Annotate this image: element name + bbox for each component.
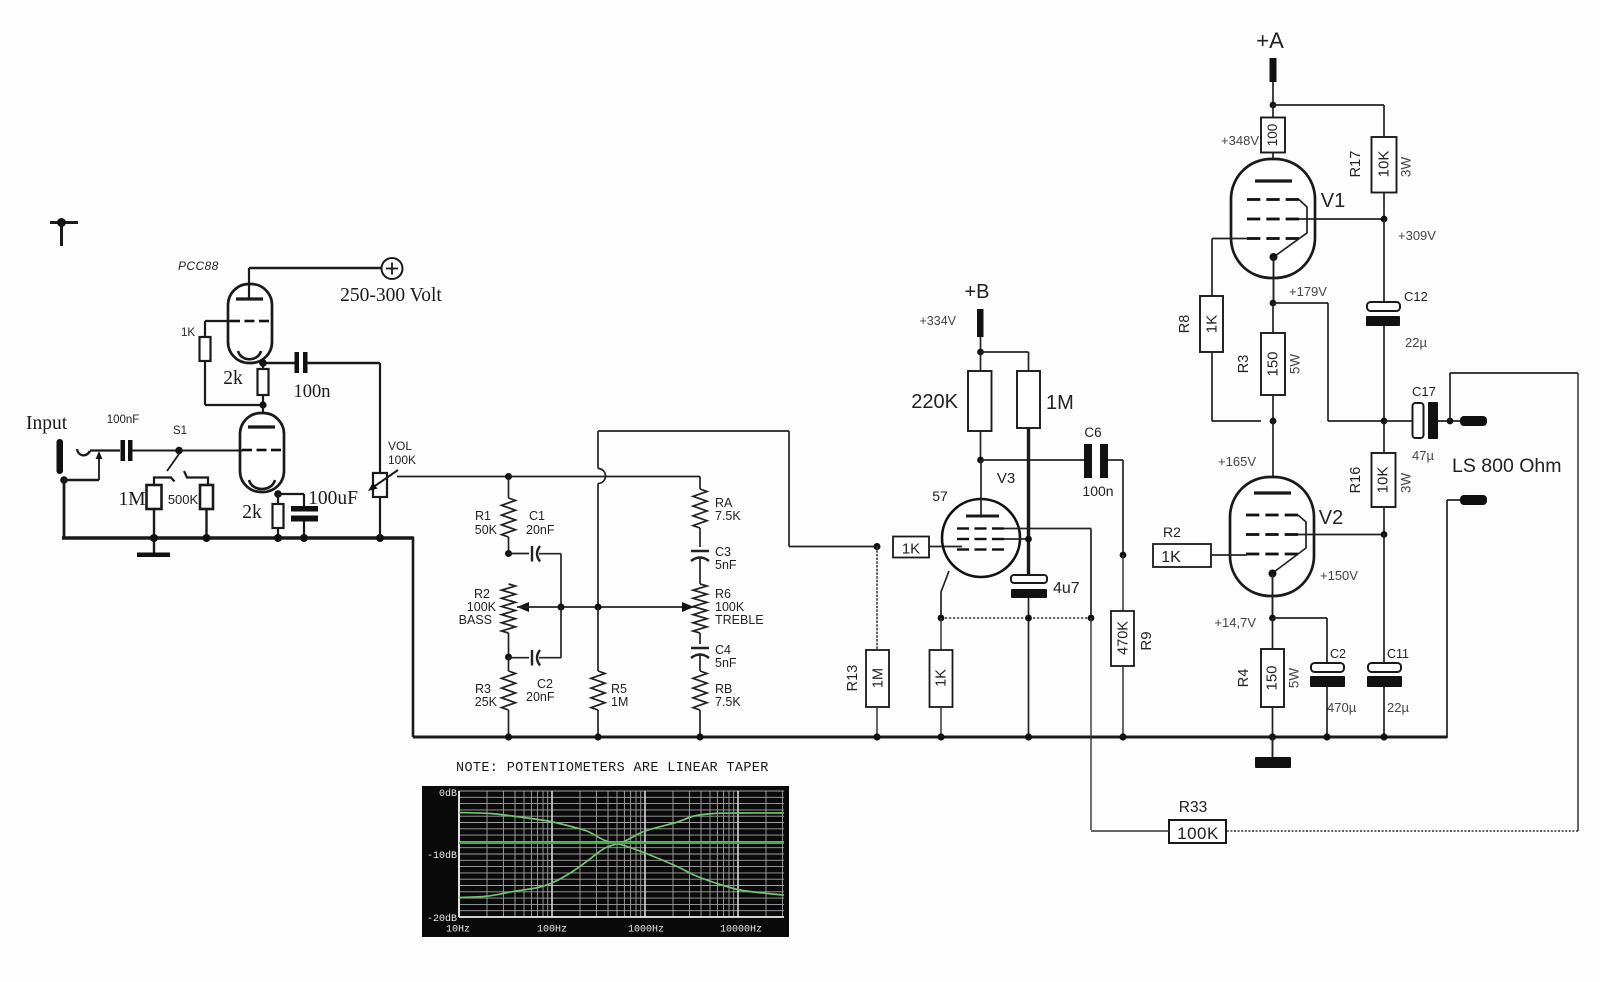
wire V2 out row to R16 node (1298, 534, 1384, 536)
svg-text:500K: 500K (168, 492, 199, 507)
svg-text:C11: C11 (1387, 647, 1409, 661)
wire +A to R17 (1273, 105, 1384, 137)
wire +A down (1272, 82, 1274, 105)
svg-text:V1: V1 (1321, 190, 1345, 212)
node RB ground (696, 733, 703, 740)
svg-text:1K: 1K (1161, 549, 1181, 566)
wiper wire bass/treble (517, 602, 694, 612)
svg-text:100uF: 100uF (308, 488, 358, 509)
node junction 2k/1K/plate-lower (259, 401, 266, 408)
svg-text:1M: 1M (1046, 392, 1074, 414)
resistor 1K V3 grid stopper (893, 537, 962, 558)
svg-text:2k: 2k (223, 368, 243, 389)
svg-text:5W: 5W (1288, 354, 1303, 375)
wire output to feedback R33 (1226, 373, 1578, 831)
triode upper (PCC88 a) (228, 284, 272, 363)
svg-text:25K: 25K (475, 695, 498, 709)
svg-text:3W: 3W (1399, 473, 1414, 494)
svg-text:100K: 100K (388, 453, 416, 467)
node R13 ground (873, 733, 880, 740)
capacitor 100nF input (121, 440, 177, 461)
node R4 ground (1269, 733, 1276, 740)
svg-text:100: 100 (1265, 124, 1280, 147)
frequency response chart (422, 786, 789, 937)
svg-text:1K: 1K (181, 327, 195, 339)
svg-text:4u7: 4u7 (1053, 580, 1080, 597)
svg-text:100n: 100n (294, 382, 331, 402)
node R17/C12/V1 (1381, 216, 1388, 223)
resistor R13 1M (845, 547, 889, 738)
node cathode lower triode (274, 490, 282, 498)
svg-text:R17: R17 (1348, 151, 1364, 178)
node 500K ground (203, 534, 211, 542)
wire tone output up and over to V3 grid (598, 431, 877, 547)
capacitor C2 20nF (509, 607, 562, 704)
svg-text:R3: R3 (1236, 355, 1252, 374)
resistor 2k (upper cathode) (223, 363, 268, 405)
svg-text:+309V: +309V (1398, 228, 1436, 243)
svg-text:Input: Input (26, 413, 68, 434)
resistor RA 7.5K (693, 477, 741, 548)
node V3 grid / R13 (874, 543, 881, 550)
svg-text:22µ: 22µ (1405, 335, 1427, 350)
svg-text:R4: R4 (1236, 669, 1252, 688)
svg-text:100K: 100K (1177, 824, 1219, 843)
svg-text:250-300 Volt: 250-300 Volt (340, 285, 442, 306)
svg-text:C17: C17 (1412, 384, 1436, 399)
svg-text:2k: 2k (242, 502, 262, 523)
svg-text:100K: 100K (715, 600, 745, 614)
capacitor C11 22u (1367, 647, 1409, 737)
node cathode left (938, 615, 945, 622)
capacitor 100uF cathode bypass (278, 488, 358, 538)
wire grid lower triode from S1 (179, 450, 242, 452)
node output (1447, 418, 1454, 425)
cathode bus V3 dotted (941, 617, 1091, 619)
tube V3 pentode 57 (932, 460, 1020, 618)
svg-text:150: 150 (1263, 665, 1280, 690)
wire VOL-ground to main rail (412, 537, 415, 738)
svg-text:10K: 10K (1375, 151, 1392, 178)
ground rail input section (62, 536, 413, 539)
resistor 1K (grid stopper upper) (181, 321, 230, 361)
resistor R2 1K V2 grid (1153, 524, 1247, 567)
wire jack sleeve to ground rail (63, 480, 66, 539)
svg-text:7.5K: 7.5K (715, 509, 741, 523)
node screen junction (1025, 536, 1032, 543)
wire cathode to C2 (1273, 618, 1328, 663)
svg-text:100n: 100n (1082, 483, 1113, 499)
svg-text:+179V: +179V (1289, 284, 1327, 299)
svg-text:+14,7V: +14,7V (1214, 615, 1256, 630)
svg-text:V2: V2 (1319, 507, 1343, 529)
wire feedback from V3 cathode down (1090, 618, 1092, 830)
svg-text:VOL: VOL (388, 439, 412, 453)
node 1K ground (937, 733, 944, 740)
resistor R3 25K (475, 657, 516, 737)
resistor R1 50K (475, 477, 516, 554)
tube V2 (1230, 421, 1343, 618)
svg-text:RB: RB (715, 682, 732, 696)
svg-text:NOTE: POTENTIOMETERS ARE LINEA: NOTE: POTENTIOMETERS ARE LINEAR TAPER (456, 761, 769, 776)
svg-text:150: 150 (1264, 351, 1281, 376)
potentiometer VOL 100K (368, 363, 398, 538)
resistor 1M (input) (118, 485, 161, 538)
wire +B to node (980, 337, 982, 352)
wire node down to C12 (1383, 219, 1385, 302)
svg-text:22µ: 22µ (1387, 700, 1409, 715)
svg-text:-20dB: -20dB (427, 913, 457, 925)
svg-text:+150V: +150V (1320, 568, 1358, 583)
capacitor C4 5nF (691, 643, 737, 671)
svg-text:+165V: +165V (1218, 454, 1256, 469)
wire VOL wiper to tone network (397, 476, 508, 478)
wire plate upper triode to +supply (249, 268, 381, 299)
node 4u7 ground (1025, 733, 1032, 740)
svg-text:C6: C6 (1084, 425, 1101, 440)
grid dashes lower triode (242, 449, 252, 452)
node cathode upper triode (259, 359, 267, 367)
curve falling response (459, 813, 784, 896)
resistor 1M screen feed (981, 352, 1074, 428)
ground symbol output section (1255, 737, 1291, 768)
svg-text:R5: R5 (611, 682, 627, 696)
node C2 ground (1323, 733, 1330, 740)
svg-text:1M: 1M (611, 695, 628, 709)
resistor R17 10K 3W (1348, 137, 1414, 219)
resistor R9 470K (1111, 555, 1155, 737)
node 1M ground (150, 534, 158, 542)
resistor 1K V3 cathode (930, 618, 953, 737)
svg-text:1M: 1M (118, 489, 145, 510)
svg-text:R13: R13 (845, 665, 861, 692)
svg-text:20nF: 20nF (526, 690, 555, 704)
node R1/R2/C1 (505, 550, 512, 557)
svg-text:R2: R2 (474, 587, 490, 601)
node cathode 4u7 (1025, 615, 1032, 622)
curve rising response (459, 813, 784, 898)
potentiometer R6 100K TREBLE (693, 584, 764, 644)
svg-text:50K: 50K (475, 523, 498, 537)
svg-text:1000Hz: 1000Hz (628, 925, 664, 936)
wire vertical tone output with hop over top rail (598, 431, 605, 607)
capacitor 100n coupling (upper) (266, 352, 380, 402)
svg-text:TREBLE: TREBLE (715, 613, 764, 627)
node R2/R3/C2 (505, 654, 512, 661)
capacitor C12 22u (1366, 289, 1428, 421)
node C12/R16 (1381, 418, 1388, 425)
switch S1 lever (167, 454, 179, 471)
speaker terminal - (1460, 495, 1487, 505)
node tone input top (505, 473, 512, 480)
node C11 ground (1380, 733, 1387, 740)
label VOL 100K (388, 439, 416, 467)
svg-text:470µ: 470µ (1327, 700, 1357, 715)
svg-text:1K: 1K (933, 669, 949, 687)
node R3 ground (505, 733, 512, 740)
node R3/V2 plate (1270, 418, 1277, 425)
svg-text:RA: RA (715, 496, 733, 510)
tube V1 (1231, 159, 1345, 303)
svg-text:470K: 470K (1115, 621, 1131, 655)
ground symbol input section (137, 538, 170, 557)
capacitor C17 47u output (1384, 384, 1461, 463)
svg-text:R3: R3 (475, 682, 491, 696)
node cathode feedback (1088, 615, 1095, 622)
svg-text:100K: 100K (467, 600, 497, 614)
node 2k ground (274, 534, 282, 542)
svg-text:R16: R16 (1348, 467, 1364, 494)
capacitor C1 20nF (509, 509, 562, 607)
wire node down to C11 (1383, 535, 1385, 664)
node V3 plate (977, 457, 984, 464)
resistor 100 V1 plate (1221, 105, 1285, 181)
svg-text:C1: C1 (529, 509, 545, 523)
svg-text:S1: S1 (173, 425, 187, 437)
svg-text:C2: C2 (1330, 647, 1346, 661)
resistor R8 1K V1 grid (1177, 239, 1261, 422)
svg-text:PCC88: PCC88 (178, 259, 219, 273)
svg-text:1K: 1K (902, 541, 920, 558)
svg-text:20nF: 20nF (526, 523, 555, 537)
svg-text:220K: 220K (911, 391, 958, 413)
ground rail main bottom (413, 736, 1447, 739)
node R16/C11 (1381, 531, 1388, 538)
svg-text:+B: +B (964, 281, 989, 303)
svg-text:57: 57 (932, 488, 948, 504)
resistor 220K (911, 352, 991, 460)
node V2 cathode (1269, 615, 1276, 622)
resistor R33 100K feedback (1091, 799, 1226, 843)
svg-text:R33: R33 (1179, 799, 1207, 816)
svg-text:10000Hz: 10000Hz (720, 925, 762, 936)
svg-text:10Hz: 10Hz (446, 925, 470, 936)
wire node to plate of lower triode (262, 405, 264, 428)
node R9 ground (1119, 733, 1126, 740)
potentiometer R2 100K BASS (459, 584, 516, 657)
node S1 (175, 447, 183, 455)
wire screen thick from 1M to 4u7 (1027, 428, 1030, 577)
wire 1K bottom to node below 2k (205, 361, 263, 405)
supply bar +A (1270, 58, 1277, 82)
supply bar +B (977, 309, 984, 337)
chart labels dB/Hz (427, 788, 762, 936)
svg-text:C2: C2 (537, 677, 553, 691)
svg-text:100nF: 100nF (107, 414, 140, 426)
supply terminal circle + 250-300 Volt (340, 258, 442, 306)
svg-text:C12: C12 (1404, 289, 1428, 304)
svg-text:-10dB: -10dB (427, 850, 457, 862)
resistor RB 7.5K (693, 671, 741, 737)
antenna/test-point symbol top-left (50, 218, 78, 246)
curve flat response (459, 842, 784, 844)
svg-text:BASS: BASS (459, 613, 492, 627)
node C6/R9/R2 (1120, 552, 1127, 559)
node 100uF ground (300, 534, 308, 542)
resistor 2k (lower cathode) (242, 492, 283, 538)
capacitor C3 5nF (691, 545, 737, 584)
wire V3 g2 row to screen line (1004, 538, 1029, 540)
svg-text:C3: C3 (715, 545, 731, 559)
node wiper/C-bridge (558, 604, 565, 611)
input jack (57, 439, 121, 484)
svg-text:V3: V3 (997, 470, 1015, 487)
svg-text:5nF: 5nF (715, 656, 737, 670)
speaker terminal + (1460, 416, 1487, 426)
node R5 ground (594, 733, 601, 740)
node wiper/R5 (595, 604, 602, 611)
capacitor 4u7 screen bypass (1011, 575, 1080, 737)
svg-text:C4: C4 (715, 643, 731, 657)
capacitor C6 100n coupling (981, 425, 1124, 555)
svg-text:+348V: +348V (1221, 133, 1259, 148)
svg-text:R6: R6 (715, 587, 731, 601)
wire V3 g1 row to suppressor tie (1004, 529, 1091, 619)
svg-text:1M: 1M (870, 668, 886, 688)
svg-text:5W: 5W (1287, 668, 1302, 689)
svg-text:1K: 1K (1203, 315, 1220, 333)
svg-text:5nF: 5nF (715, 558, 737, 572)
svg-text:LS 800 Ohm: LS 800 Ohm (1452, 455, 1561, 477)
resistor R16 10K 3W (1348, 421, 1414, 534)
node +A (1270, 102, 1277, 109)
svg-text:R8: R8 (1177, 315, 1193, 334)
resistor R3 150 5W (1236, 303, 1303, 421)
switch contact right + wire to 500K (184, 471, 208, 485)
svg-text:7.5K: 7.5K (715, 695, 741, 709)
svg-text:+A: +A (1256, 28, 1284, 53)
svg-text:+334V: +334V (920, 314, 957, 328)
switch contact left + wire to 1M (154, 478, 175, 486)
resistor R4 150 5W (1236, 618, 1302, 737)
wire V1 cathode to output node (1273, 303, 1384, 421)
capacitor C2 470u (1310, 647, 1357, 737)
svg-text:R9: R9 (1138, 631, 1155, 650)
wire V1 out row to R17 node (1299, 218, 1384, 220)
svg-text:R2: R2 (1163, 524, 1181, 540)
resistor R5 1M (591, 607, 628, 737)
node VOL ground (376, 534, 384, 542)
svg-text:3W: 3W (1399, 157, 1414, 178)
resistor 500K (168, 485, 213, 538)
svg-text:10K: 10K (1374, 467, 1391, 494)
svg-text:47µ: 47µ (1412, 448, 1434, 463)
grid dashes upper triode (230, 320, 240, 323)
svg-text:100Hz: 100Hz (537, 925, 567, 936)
svg-text:0dB: 0dB (439, 788, 457, 800)
node +B supply (977, 349, 984, 356)
wire speaker - to ground rail (1447, 500, 1460, 738)
node V1 cathode / R3 (1270, 300, 1277, 307)
svg-text:R1: R1 (475, 509, 491, 523)
triode lower (PCC88 b) (240, 413, 284, 492)
wire tone top rail to RA (509, 476, 701, 478)
